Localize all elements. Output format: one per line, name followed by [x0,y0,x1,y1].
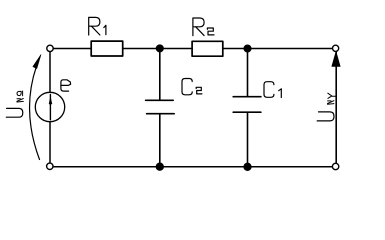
label R2 [193,18,214,36]
wire bottom rail [53,166,332,168]
resistor R1 [91,41,123,56]
terminal top-left [47,45,53,51]
wire top-left: terminal to R1 [53,48,91,50]
terminal bottom-left [47,163,53,169]
label C2 [182,79,202,95]
wire node A to R2 [160,48,192,50]
label R1 [89,17,106,35]
wire left vertical upper [49,52,51,93]
voltage source U1 circle [35,92,64,121]
label e (source emf) [61,80,71,91]
label U_wy (rotated) [317,93,336,121]
wire C2 bottom lead [159,114,161,166]
capacitor C1 [233,97,261,113]
terminal bottom-right [332,163,338,169]
voltage source arrow [49,95,52,120]
wire C1 bottom lead [247,113,249,167]
wire R1 to node A [123,48,160,50]
wire node B to output terminal [248,48,333,50]
node B junction dot [244,45,251,52]
output arrow U_wy [332,52,340,67]
wire C1 top lead [247,49,249,97]
node A junction dot [157,45,164,52]
node B' bottom junction dot [244,163,251,170]
wire left vertical lower [49,122,51,163]
wire right vertical [335,52,337,164]
label C1 [264,82,281,98]
terminal top-right [333,45,339,51]
wire R2 to node B [223,48,248,50]
capacitor C2 [146,100,175,113]
input voltage arc arrow U_we [30,55,41,160]
resistor R2 [192,41,223,56]
node A' bottom junction dot [156,163,163,170]
wire C2 top lead [159,49,161,100]
label U_we (rotated) [6,91,23,117]
